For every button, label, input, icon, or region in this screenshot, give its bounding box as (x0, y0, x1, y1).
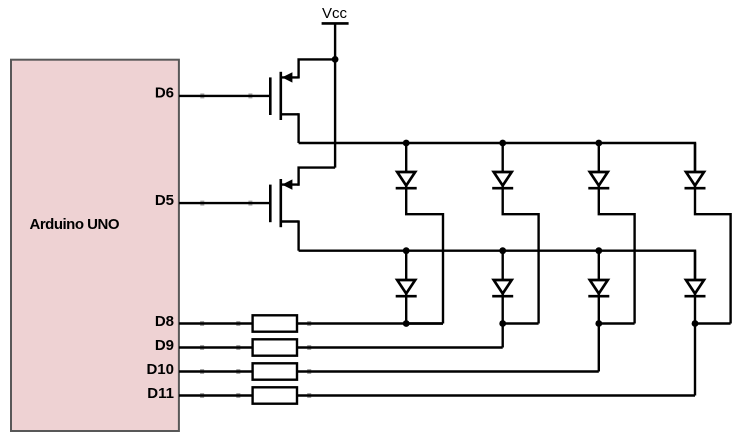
wire LED5 anode (405, 251, 407, 280)
resistor R3 (253, 363, 297, 379)
wire row 1 anode rail (299, 143, 695, 172)
wire Vcc rail (334, 23, 336, 167)
LED LED7 (row 2 col 3) (588, 280, 609, 296)
wire R3 to col 3 (307, 369, 311, 374)
wire row 2 anode rail (299, 251, 695, 280)
svg-text:D9: D9 (155, 337, 174, 354)
wire D6 gate lead (200, 93, 204, 98)
wire LED8 anode (694, 251, 696, 280)
wire LED6 cathode (502, 293, 504, 324)
resistor R2 (253, 339, 297, 355)
wire col 1 junction to step (406, 322, 443, 324)
wire Q1 source to Vcc (299, 59, 336, 78)
wire D9 pin to R2 (200, 345, 204, 350)
wire col 4 down to D11 line (694, 324, 696, 396)
Arduino UNO board (11, 60, 179, 431)
node row 2 col 1 anode junction (403, 247, 410, 254)
LED LED4 (row 1 col 4) (685, 172, 706, 188)
wire col 4 junction to step (695, 322, 731, 324)
svg-text:D11: D11 (147, 385, 174, 402)
wire LED1 cathode step down (406, 185, 443, 324)
LED LED6 (row 2 col 2) (492, 280, 513, 296)
svg-text:Vcc: Vcc (322, 5, 348, 22)
wire LED2 cathode step down (503, 185, 539, 324)
svg-text:D6: D6 (155, 85, 174, 102)
wire D8 pin to R1 (200, 321, 204, 326)
wire D10 pin to R3 (200, 369, 204, 374)
svg-text:D8: D8 (155, 313, 174, 330)
wire D5 gate lead (200, 201, 204, 206)
node row 1 col 1 anode junction (403, 140, 410, 147)
wire LED7 cathode (598, 293, 600, 324)
wire LED3 anode (598, 143, 600, 172)
wire LED4 anode (694, 143, 696, 172)
node row 2 col 2 anode junction (499, 247, 506, 254)
wire LED4 cathode step down (695, 185, 731, 324)
svg-text:Arduino UNO: Arduino UNO (30, 216, 120, 233)
node row 1 col 2 anode junction (499, 140, 506, 147)
wire LED7 anode (598, 251, 600, 280)
wire Q2 drain to row 2 rail (297, 220, 299, 250)
node Q1 source tap on Vcc (332, 56, 339, 63)
node row 2 col 3 anode junction (595, 247, 602, 254)
wire LED8 cathode (694, 293, 696, 324)
svg-text:D5: D5 (155, 192, 174, 209)
LED LED1 (row 1 col 1) (396, 172, 417, 188)
wire col 3 junction to step (599, 322, 635, 324)
wire LED1 anode (405, 143, 407, 172)
LED LED8 (row 2 col 4) (685, 280, 706, 296)
wire LED3 cathode step down (599, 185, 635, 324)
node col 2 cathode junction (499, 320, 506, 327)
LED LED2 (row 1 col 2) (492, 172, 513, 188)
node col 1 cathode junction (403, 320, 410, 327)
node col 3 cathode junction (595, 320, 602, 327)
wire R4 to col 4 (307, 393, 311, 398)
wire LED5 cathode (405, 293, 407, 324)
svg-text:D10: D10 (146, 361, 174, 378)
wire Q1 drain to row 1 rail (297, 113, 299, 143)
LED LED3 (row 1 col 3) (588, 172, 609, 188)
resistor R4 (253, 387, 297, 403)
wire LED6 anode (502, 251, 504, 280)
node col 4 cathode junction (692, 320, 699, 327)
transistor Q1 (270, 72, 298, 120)
wire col 2 down to D9 line (502, 324, 504, 348)
wire col 3 down to D10 line (598, 324, 600, 372)
wire LED2 anode (502, 143, 504, 172)
wire D11 pin to R4 (200, 393, 204, 398)
node row 1 col 3 anode junction (595, 140, 602, 147)
wire col 2 junction to step (503, 322, 539, 324)
wire R2 to col 2 (307, 345, 311, 350)
wire Q2 source to Vcc (299, 168, 336, 186)
Vcc power symbol (322, 22, 349, 25)
resistor R1 (253, 315, 297, 331)
wire R1 to col 1 (307, 321, 311, 326)
transistor Q2 (270, 179, 298, 227)
LED LED5 (row 2 col 1) (396, 280, 417, 296)
